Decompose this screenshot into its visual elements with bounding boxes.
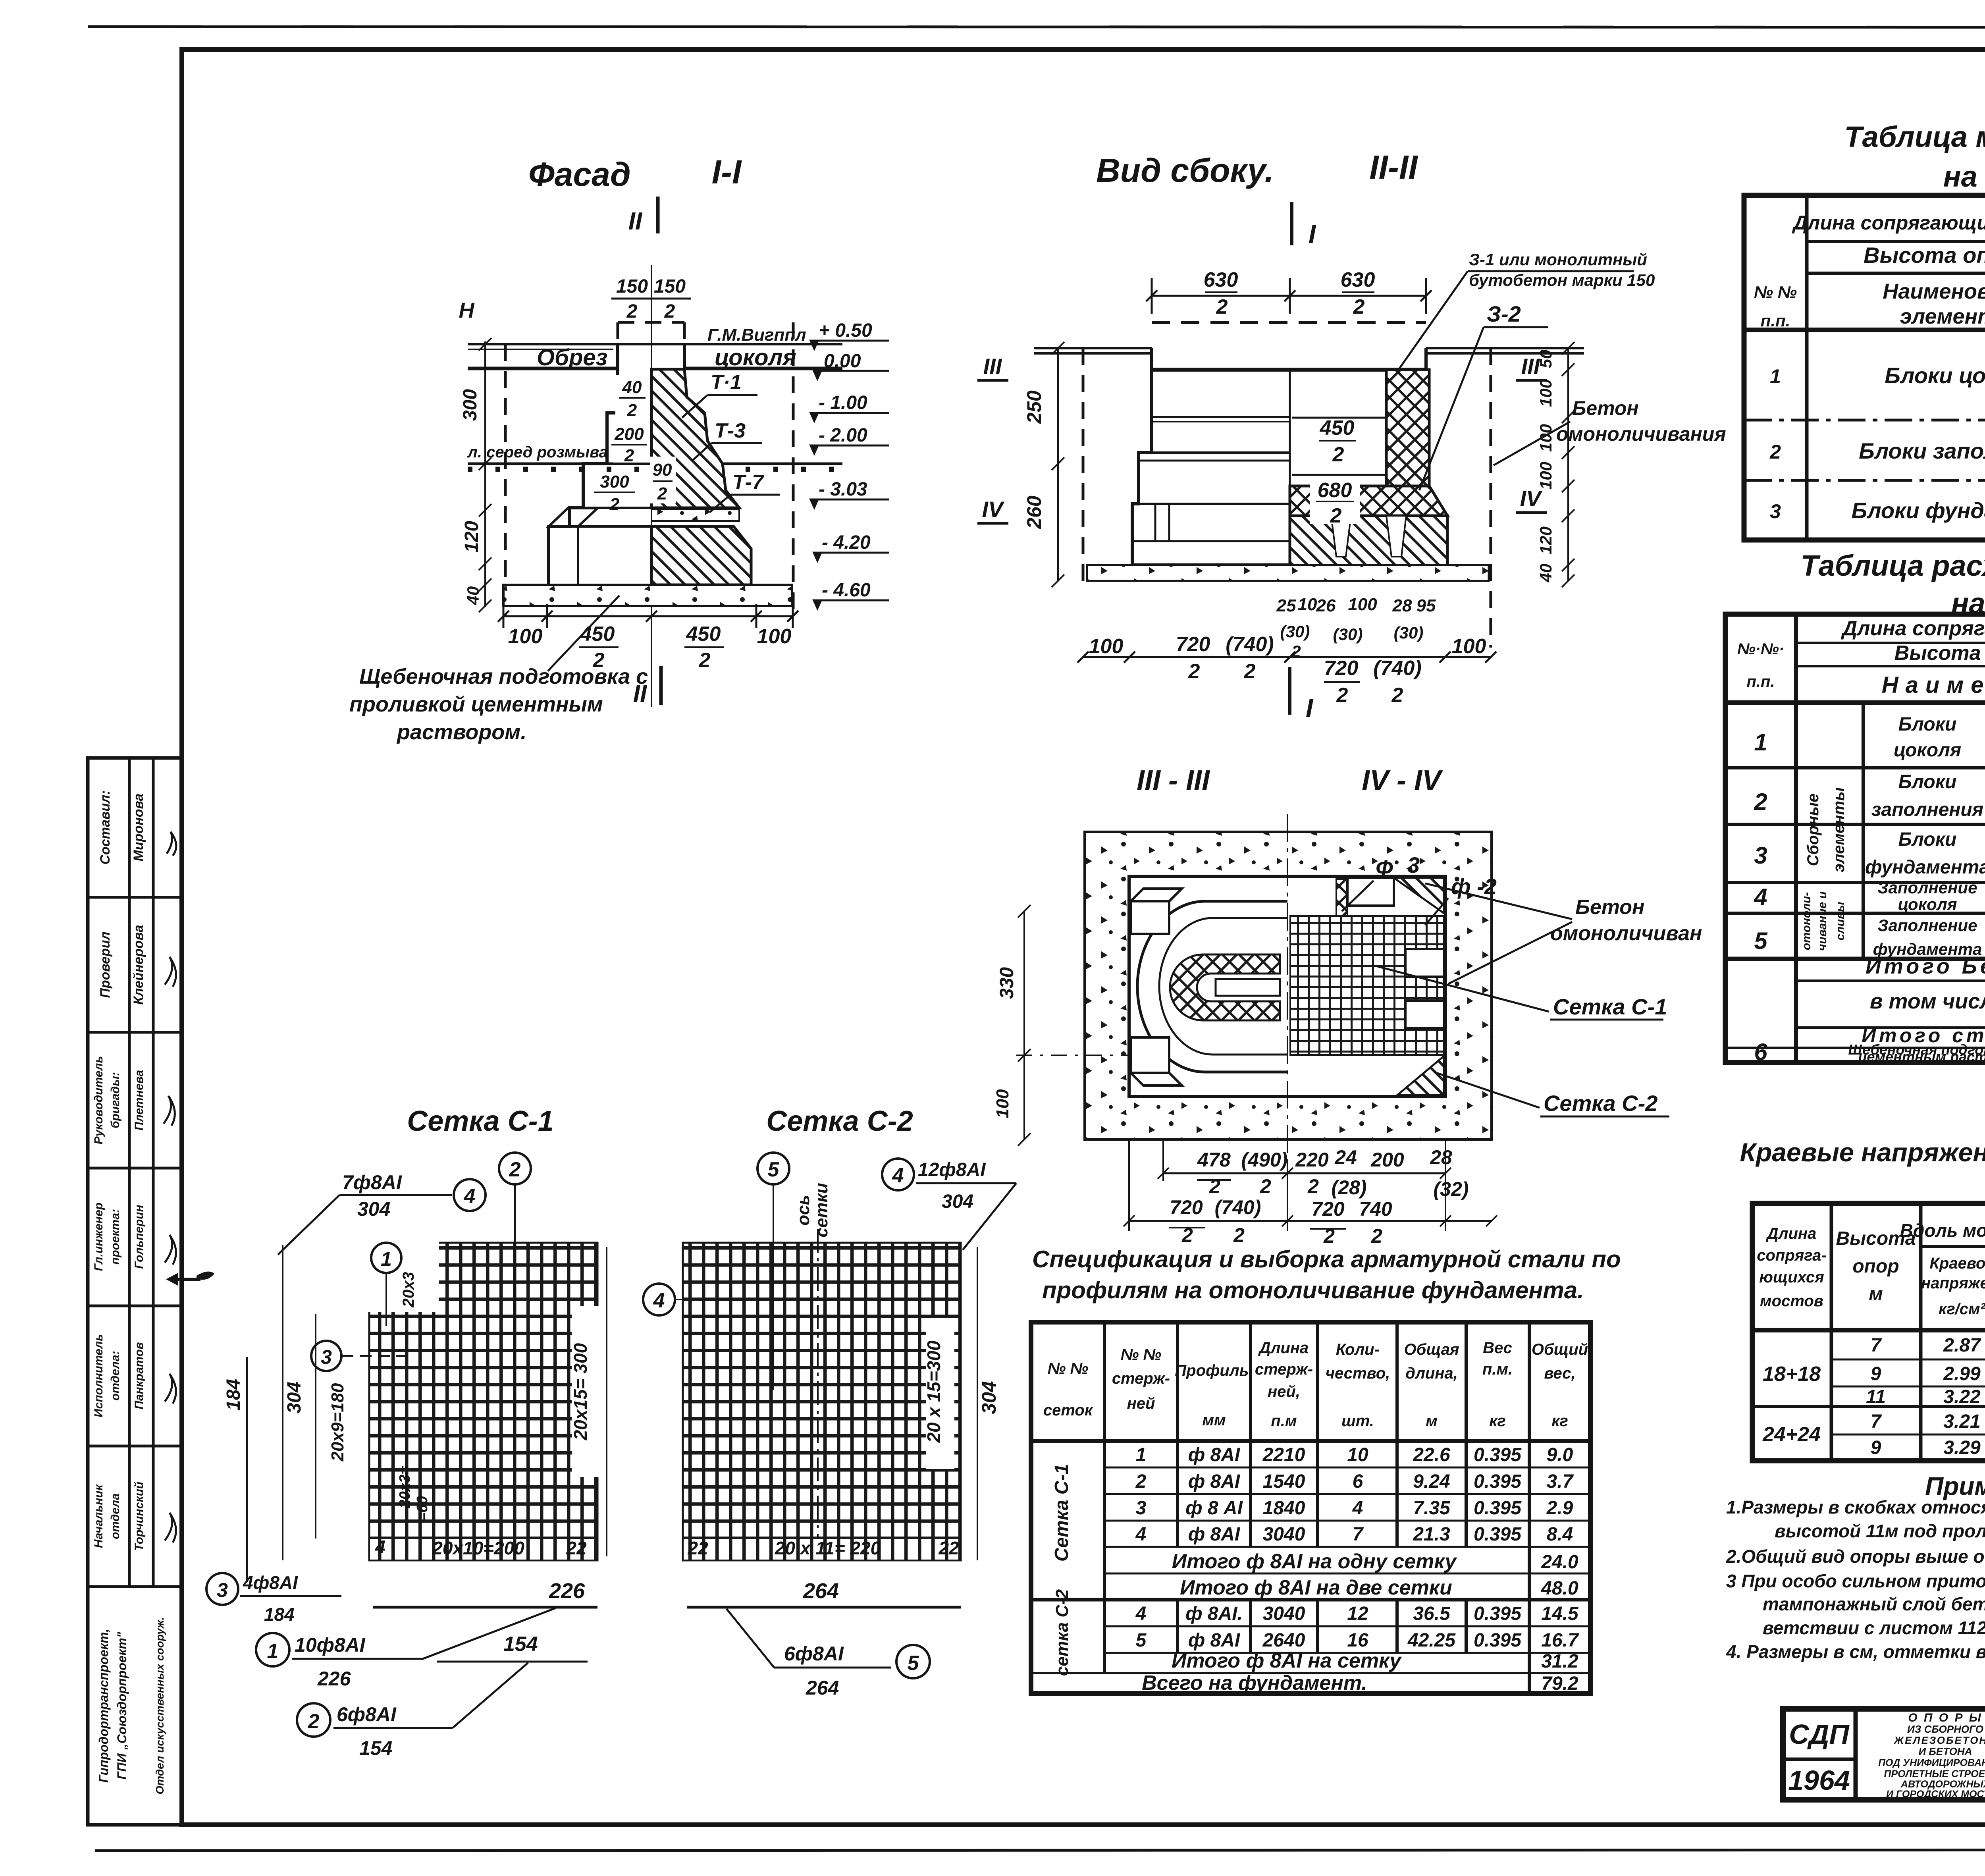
svg-text:1: 1	[381, 1248, 392, 1270]
svg-text:21.3: 21.3	[1413, 1524, 1450, 1545]
svg-text:184: 184	[223, 1379, 244, 1411]
svg-text:5: 5	[768, 1158, 780, 1181]
svg-text:№ №: № №	[1754, 283, 1797, 301]
svg-text:26: 26	[1316, 596, 1336, 615]
svg-text:И ГОРОДСКИХ МОСТОВ: И ГОРОДСКИХ МОСТОВ	[1886, 1789, 1985, 1800]
svg-text:200: 200	[1370, 1149, 1404, 1171]
svg-text:226: 226	[549, 1579, 585, 1603]
svg-text:Итого ф 8АI на одну сетку: Итого ф 8АI на одну сетку	[1172, 1550, 1458, 1573]
svg-text:1: 1	[1136, 1444, 1147, 1465]
svg-text:ф 8 АI: ф 8 АI	[1185, 1498, 1243, 1519]
svg-text:3: 3	[217, 1579, 228, 1601]
svg-text:Г.М.Вигппл: Г.М.Вигппл	[707, 325, 806, 345]
svg-text:Ф: Ф	[1376, 855, 1393, 880]
svg-text:28: 28	[1392, 596, 1412, 615]
svg-text:4: 4	[464, 1185, 476, 1208]
svg-text:7.35: 7.35	[1413, 1498, 1451, 1519]
svg-text:цементным раствором: цементным раствором	[1858, 1049, 1985, 1065]
svg-text:№·№·: №·№·	[1737, 640, 1784, 658]
svg-text:3: 3	[1754, 842, 1767, 869]
svg-text:Руководитель: Руководитель	[92, 1056, 105, 1145]
svg-text:0.395: 0.395	[1474, 1630, 1522, 1651]
svg-text:I: I	[1309, 219, 1316, 249]
svg-text:З-1 или монолитный: З-1 или монолитный	[1469, 250, 1647, 269]
svg-text:Высота опоры м: Высота опоры м	[1864, 243, 1985, 268]
svg-text:ней: ней	[1127, 1395, 1155, 1412]
svg-text:мм: мм	[1202, 1411, 1226, 1429]
svg-text:стерж-: стерж-	[1255, 1361, 1313, 1378]
svg-text:50: 50	[1536, 350, 1555, 368]
svg-text:СДП: СДП	[1789, 1719, 1850, 1750]
svg-text:Вдоль моста: Вдоль моста	[1900, 1220, 1985, 1241]
svg-text:184: 184	[264, 1604, 295, 1625]
svg-text:100: 100	[757, 625, 792, 648]
svg-text:кг: кг	[1489, 1412, 1506, 1430]
svg-text:отдела:: отдела:	[109, 1351, 122, 1401]
svg-text:6: 6	[1353, 1471, 1363, 1492]
svg-text:4: 4	[375, 1537, 385, 1557]
svg-text:(740): (740)	[1215, 1196, 1261, 1219]
svg-text:720: 720	[1311, 1198, 1345, 1220]
svg-text:ющихся: ющихся	[1759, 1269, 1824, 1286]
svg-text:4ф8АI: 4ф8АI	[243, 1572, 298, 1593]
svg-text:ПРОЛЕТНЫЕ СТРОЕНИЯ: ПРОЛЕТНЫЕ СТРОЕНИЯ	[1884, 1768, 1985, 1780]
svg-text:Блоки: Блоки	[1898, 771, 1957, 792]
svg-text:304: 304	[942, 1191, 973, 1212]
svg-text:1: 1	[1770, 365, 1781, 388]
svg-text:680: 680	[1318, 479, 1352, 502]
svg-text:шт.: шт.	[1341, 1412, 1374, 1430]
svg-text:Панкратов: Панкратов	[133, 1342, 146, 1409]
svg-text:1: 1	[1754, 729, 1767, 756]
svg-text:154: 154	[359, 1737, 392, 1759]
svg-text:раствором.: раствором.	[396, 720, 526, 744]
svg-text:10: 10	[1347, 1444, 1368, 1465]
svg-text:5: 5	[1136, 1630, 1147, 1651]
svg-text:напряжен.: напряжен.	[1921, 1274, 1985, 1292]
svg-text:вес,: вес,	[1544, 1365, 1575, 1382]
svg-text:3.21: 3.21	[1943, 1411, 1980, 1432]
svg-text:8.4: 8.4	[1547, 1524, 1573, 1545]
svg-text:150: 150	[616, 276, 648, 297]
svg-text:28: 28	[1430, 1146, 1452, 1168]
svg-text:16.7: 16.7	[1541, 1630, 1579, 1651]
svg-text:2: 2	[1307, 1175, 1319, 1197]
svg-text:150: 150	[654, 276, 686, 297]
svg-text:АВТОДОРОЖНЫХ: АВТОДОРОЖНЫХ	[1900, 1779, 1985, 1790]
svg-text:цоколя: цоколя	[1894, 740, 1961, 761]
svg-text:чивание и: чивание и	[1816, 891, 1829, 951]
svg-text:омоноличивания: омоноличивания	[1556, 423, 1726, 445]
svg-text:79.2: 79.2	[1541, 1673, 1578, 1694]
svg-text:сетки: сетки	[812, 1183, 831, 1237]
svg-text:24.0: 24.0	[1541, 1552, 1578, 1573]
svg-text:12: 12	[1347, 1603, 1368, 1624]
svg-text:3: 3	[1770, 500, 1781, 523]
svg-text:0.00: 0.00	[824, 351, 861, 372]
svg-text:9.24: 9.24	[1413, 1471, 1450, 1492]
svg-text:(30): (30)	[1394, 623, 1424, 642]
svg-text:кг: кг	[1551, 1412, 1568, 1430]
svg-text:И БЕТОНА: И БЕТОНА	[1919, 1745, 1972, 1757]
svg-text:цоколя: цоколя	[1898, 895, 1957, 914]
svg-text:чество,: чество,	[1326, 1365, 1390, 1382]
svg-text:ф 8АI: ф 8АI	[1188, 1471, 1241, 1492]
svg-text:450: 450	[580, 623, 615, 646]
svg-text:Общая: Общая	[1404, 1341, 1459, 1358]
svg-text:высотой 11м под пролеты 1: высотой 11м под пролеты 18+18 м	[1775, 1521, 1985, 1541]
svg-text:- 4.60: - 4.60	[822, 580, 871, 601]
svg-text:Вес: Вес	[1483, 1339, 1512, 1357]
svg-text:профилям на отоноличивание фун: профилям на отоноличивание фундамента.	[1042, 1277, 1584, 1303]
svg-text:Торчинский: Торчинский	[133, 1482, 146, 1551]
svg-text:Заполнение: Заполнение	[1878, 878, 1977, 897]
svg-text:20х15= 300: 20х15= 300	[570, 1343, 591, 1440]
svg-text:2: 2	[1332, 443, 1344, 466]
svg-text:Итого ф 8АI на сетку: Итого ф 8АI на сетку	[1172, 1649, 1402, 1672]
svg-text:Т-7: Т-7	[732, 471, 764, 494]
svg-text:1840: 1840	[1263, 1498, 1305, 1519]
svg-text:200: 200	[614, 424, 644, 444]
svg-text:Н: Н	[459, 299, 475, 322]
svg-text:250: 250	[1023, 390, 1045, 424]
svg-text:I: I	[1306, 693, 1314, 723]
svg-text:2640: 2640	[1262, 1630, 1305, 1651]
svg-text:(740): (740)	[1373, 657, 1421, 680]
svg-text:Исполнитель: Исполнитель	[92, 1334, 105, 1417]
svg-text:5: 5	[908, 1652, 919, 1675]
svg-text:(30): (30)	[1280, 622, 1310, 641]
svg-text:2: 2	[699, 649, 711, 672]
svg-text:2: 2	[509, 1158, 521, 1181]
svg-text:2: 2	[624, 446, 634, 465]
svg-text:2.99: 2.99	[1943, 1363, 1981, 1384]
svg-text:Составил:: Составил:	[98, 790, 113, 864]
svg-text:2: 2	[1244, 660, 1256, 683]
svg-text:2: 2	[1330, 504, 1342, 527]
svg-text:9: 9	[1871, 1437, 1881, 1458]
svg-text:элементы: элементы	[1830, 787, 1848, 872]
svg-text:1.Размеры в скобках относятся: 1.Размеры в скобках относятся к опоре вы…	[1726, 1497, 1985, 1517]
svg-text:31.2: 31.2	[1541, 1651, 1578, 1672]
svg-text:3.22: 3.22	[1943, 1386, 1981, 1407]
svg-text:40: 40	[622, 378, 642, 397]
svg-text:IV: IV	[982, 497, 1005, 522]
svg-text:100: 100	[508, 625, 543, 648]
svg-text:п.п.: п.п.	[1746, 673, 1775, 690]
svg-text:100: 100	[1536, 462, 1555, 490]
svg-text:Наименование: Наименование	[1882, 672, 1985, 698]
svg-text:100: 100	[993, 1089, 1012, 1118]
svg-text:III: III	[983, 354, 1002, 379]
svg-text:304: 304	[978, 1381, 1000, 1414]
svg-text:14.5: 14.5	[1541, 1603, 1579, 1624]
svg-text:№ №: № №	[1121, 1346, 1162, 1363]
svg-text:720: 720	[1324, 657, 1359, 680]
svg-text:2210: 2210	[1262, 1444, 1305, 1465]
svg-text:24+24: 24+24	[1762, 1423, 1821, 1446]
svg-text:Гольперин: Гольперин	[133, 1205, 146, 1269]
svg-text:630: 630	[1204, 268, 1238, 291]
svg-text:3.7: 3.7	[1547, 1471, 1574, 1492]
svg-text:+ 0.50: + 0.50	[819, 320, 872, 341]
svg-text:720: 720	[1170, 1196, 1203, 1219]
svg-text:Заполнение: Заполнение	[1878, 916, 1977, 935]
svg-text:100: 100	[1536, 379, 1555, 407]
svg-text:24: 24	[1334, 1146, 1357, 1168]
svg-text:1: 1	[267, 1640, 279, 1663]
svg-text:40: 40	[464, 586, 482, 605]
svg-text:740: 740	[1359, 1198, 1392, 1220]
svg-text:3: 3	[321, 1346, 332, 1368]
svg-text:Длина: Длина	[1766, 1225, 1817, 1242]
svg-text:- 1.00: - 1.00	[819, 392, 867, 413]
svg-text:Обрез: Обрез	[537, 345, 607, 370]
svg-text:330: 330	[996, 967, 1018, 999]
svg-text:Фасад: Фасад	[528, 156, 631, 193]
svg-text:п.м: п.м	[1271, 1412, 1297, 1430]
svg-text:Высота опоры м: Высота опоры м	[1894, 642, 1985, 665]
svg-text:Спецификация и выборка арматур: Спецификация и выборка арматурной стали …	[1032, 1246, 1621, 1273]
svg-text:20х3: 20х3	[400, 1272, 417, 1308]
svg-text:п.п.: п.п.	[1761, 311, 1790, 330]
svg-text:4: 4	[892, 1164, 904, 1187]
svg-text:3.29: 3.29	[1943, 1437, 1981, 1458]
svg-text:2: 2	[1391, 684, 1403, 707]
svg-text:22.6: 22.6	[1413, 1444, 1450, 1465]
svg-text:264: 264	[806, 1677, 839, 1699]
svg-text:(740): (740)	[1226, 633, 1274, 656]
svg-text:2.87: 2.87	[1943, 1335, 1981, 1356]
svg-text:Сетка С-2: Сетка С-2	[1544, 1091, 1657, 1116]
svg-text:Таблица расхода основных ма: Таблица расхода основных материалов	[1800, 549, 1985, 582]
svg-text:22: 22	[938, 1538, 959, 1558]
svg-text:304: 304	[357, 1198, 390, 1220]
svg-text:цоколя: цоколя	[715, 345, 796, 370]
svg-text:Плетнева: Плетнева	[133, 1070, 146, 1130]
svg-text:Длина сопрягающихся пролетов: Длина сопрягающихся пролетов	[1841, 617, 1985, 640]
svg-text:л. серед розмыва: л. серед розмыва	[467, 443, 608, 461]
svg-text:2: 2	[1371, 1225, 1382, 1247]
svg-text:100: 100	[1452, 635, 1486, 658]
svg-text:90: 90	[653, 460, 672, 480]
svg-text:6ф8АI: 6ф8АI	[784, 1643, 844, 1665]
svg-text:2: 2	[1188, 660, 1200, 683]
svg-text:Сетка С-1: Сетка С-1	[1553, 994, 1667, 1019]
svg-text:2: 2	[1754, 789, 1767, 815]
svg-text:Профиль,: Профиль,	[1175, 1362, 1253, 1379]
svg-text:154: 154	[503, 1633, 538, 1656]
svg-text:сопряга-: сопряга-	[1757, 1247, 1827, 1264]
svg-text:7: 7	[1871, 1411, 1882, 1432]
svg-text:ПОД УНИФИЦИРОВАННЫЕ: ПОД УНИФИЦИРОВАННЫЕ	[1878, 1757, 1985, 1768]
svg-text:11: 11	[1866, 1386, 1886, 1407]
svg-text:ф 8АI: ф 8АI	[1188, 1444, 1241, 1465]
svg-text:ф 8АI: ф 8АI	[1188, 1524, 1241, 1545]
svg-text:2: 2	[626, 301, 638, 322]
svg-text:120: 120	[461, 521, 482, 553]
svg-text:№ №: № №	[1048, 1360, 1089, 1377]
svg-text:Длина сопрягающихся пролётов: Длина сопрягающихся пролётов	[1792, 212, 1985, 234]
svg-text:2.9: 2.9	[1546, 1498, 1573, 1519]
svg-text:2: 2	[1260, 1175, 1271, 1197]
svg-text:IV - IV: IV - IV	[1362, 765, 1443, 796]
svg-text:Длина: Длина	[1258, 1339, 1309, 1357]
svg-text:100: 100	[1536, 424, 1555, 452]
svg-text:100: 100	[1348, 595, 1377, 614]
svg-text:18+18: 18+18	[1763, 1363, 1821, 1386]
svg-text:- 2.00: - 2.00	[819, 425, 867, 446]
svg-text:3 При особо сильном притоке во: 3 При особо сильном притоке воды вместо …	[1726, 1571, 1985, 1591]
svg-text:300: 300	[460, 389, 481, 421]
svg-text:2: 2	[1769, 441, 1781, 463]
svg-text:2: 2	[1336, 684, 1348, 707]
svg-text:Т·1: Т·1	[711, 371, 742, 394]
svg-text:бутобетон марки 150: бутобетон марки 150	[1469, 271, 1655, 289]
svg-text:4: 4	[1135, 1524, 1147, 1545]
svg-text:Отдел искусственных сооруж.: Отдел искусственных сооруж.	[154, 1617, 166, 1795]
svg-text:630: 630	[1341, 268, 1375, 291]
svg-text:6: 6	[1754, 1039, 1767, 1065]
svg-text:сетка С-2: сетка С-2	[1052, 1589, 1072, 1676]
svg-text:=60: =60	[414, 1496, 431, 1521]
svg-text:48.0: 48.0	[1541, 1578, 1578, 1599]
svg-text:4: 4	[1135, 1603, 1147, 1624]
svg-text:(490): (490)	[1241, 1149, 1288, 1171]
svg-text:264: 264	[803, 1579, 839, 1603]
svg-text:3040: 3040	[1263, 1524, 1305, 1545]
svg-text:фундамента: фундамента	[1865, 857, 1985, 878]
svg-text:2: 2	[1135, 1471, 1147, 1492]
svg-text:220: 220	[1295, 1149, 1329, 1171]
svg-text:- 3.03: - 3.03	[819, 479, 867, 500]
svg-text:бригады:: бригады:	[109, 1072, 122, 1128]
svg-text:20х10=200: 20х10=200	[432, 1538, 524, 1558]
svg-text:ф 8АI: ф 8АI	[1188, 1630, 1241, 1651]
svg-text:Бетон: Бетон	[1572, 397, 1639, 419]
svg-text:450: 450	[686, 623, 721, 646]
svg-text:ГПИ „Союздорпроект": ГПИ „Союздорпроект"	[115, 1631, 129, 1780]
svg-text:0.395: 0.395	[1474, 1524, 1522, 1545]
svg-text:II-II: II-II	[1369, 148, 1418, 186]
svg-text:4: 4	[1754, 884, 1767, 910]
svg-text:ЖЕЛЕЗОБЕТОНА: ЖЕЛЕЗОБЕТОНА	[1893, 1734, 1985, 1746]
svg-text:2.Общий вид опоры выше обреза: 2.Общий вид опоры выше обреза цокола с т…	[1726, 1546, 1985, 1567]
svg-text:Сборные: Сборные	[1804, 793, 1822, 866]
svg-text:Блоки: Блоки	[1898, 714, 1957, 735]
svg-text:Коли-: Коли-	[1336, 1341, 1380, 1358]
svg-text:сеток: сеток	[1043, 1402, 1093, 1419]
svg-text:22: 22	[687, 1538, 708, 1558]
svg-text:на один фундамент.: на один фундамент.	[1943, 160, 1985, 193]
svg-text:Сетка С-1: Сетка С-1	[1051, 1464, 1072, 1562]
svg-text:ось: ось	[794, 1195, 813, 1225]
svg-text:Таблица монтажных элементов: Таблица монтажных элементов	[1844, 120, 1985, 153]
svg-text:I-I: I-I	[712, 153, 742, 191]
svg-text:20х3=: 20х3=	[397, 1466, 413, 1509]
svg-text:ИЗ СБОРНОГО: ИЗ СБОРНОГО	[1907, 1723, 1983, 1735]
svg-text:Краевое: Краевое	[1929, 1255, 1985, 1272]
svg-text:Итого Бетона: Итого Бетона	[1866, 954, 1985, 978]
svg-text:ней,: ней,	[1268, 1383, 1300, 1400]
svg-text:м: м	[1869, 1284, 1883, 1305]
svg-text:7ф8АI: 7ф8АI	[342, 1171, 402, 1193]
svg-text:(28): (28)	[1332, 1176, 1367, 1199]
svg-text:42.25: 42.25	[1407, 1630, 1456, 1651]
svg-text:9.0: 9.0	[1547, 1444, 1573, 1465]
svg-text:2: 2	[1233, 1224, 1245, 1246]
svg-text:Проверил: Проверил	[98, 931, 113, 998]
svg-text:Вид сбоку.: Вид сбоку.	[1096, 152, 1274, 189]
svg-text:12ф8АI: 12ф8АI	[918, 1159, 986, 1180]
svg-text:З-2: З-2	[1487, 301, 1521, 326]
svg-text:отдела: отдела	[109, 1493, 122, 1539]
svg-text:450: 450	[1320, 416, 1355, 440]
svg-text:Сетка С-1: Сетка С-1	[407, 1105, 554, 1137]
svg-text:проекта:: проекта:	[109, 1209, 122, 1265]
svg-text:2: 2	[609, 495, 620, 514]
svg-text:0.395: 0.395	[1474, 1603, 1522, 1624]
svg-text:3: 3	[1136, 1498, 1147, 1519]
svg-text:40: 40	[1536, 564, 1555, 583]
svg-text:Щебеночная подготовка с: Щебеночная подготовка с	[359, 665, 648, 688]
svg-text:36.5: 36.5	[1413, 1603, 1451, 1624]
svg-text:0.395: 0.395	[1474, 1498, 1522, 1519]
svg-text:2: 2	[1353, 295, 1365, 318]
svg-text:омоноличиван: омоноличиван	[1550, 922, 1702, 945]
svg-text:720: 720	[1176, 633, 1210, 656]
svg-text:ветствии с листом 112 по ор: ветствии с листом 112 по организации раб…	[1763, 1618, 1985, 1638]
svg-text:20х9=180: 20х9=180	[328, 1383, 347, 1462]
svg-text:в том числе: в том числе	[1870, 989, 1985, 1013]
svg-text:2: 2	[1209, 1175, 1220, 1197]
svg-text:304: 304	[284, 1382, 305, 1413]
svg-text:Наименование: Наименование	[1883, 280, 1985, 303]
svg-text:(30): (30)	[1333, 625, 1363, 644]
svg-text:Всего на фундамент.: Всего на фундамент.	[1142, 1672, 1367, 1695]
svg-text:Примечания.: Примечания.	[1925, 1472, 1985, 1500]
svg-text:опор: опор	[1852, 1256, 1899, 1277]
svg-text:сливы: сливы	[1834, 902, 1847, 941]
svg-text:100: 100	[1089, 635, 1124, 658]
svg-text:Начальник: Начальник	[92, 1484, 105, 1548]
svg-text:95: 95	[1416, 596, 1436, 615]
svg-text:16: 16	[1347, 1630, 1368, 1651]
svg-text:300: 300	[600, 472, 629, 492]
svg-text:0.395: 0.395	[1474, 1444, 1522, 1465]
svg-text:Т-3: Т-3	[715, 419, 746, 442]
svg-text:- 4.20: - 4.20	[822, 532, 871, 553]
svg-text:ф 8АI.: ф 8АI.	[1185, 1603, 1243, 1624]
svg-text:проливкой цементным: проливкой цементным	[349, 692, 603, 716]
svg-text:Блоки: Блоки	[1898, 829, 1957, 850]
svg-text:Гипродортранспроект,: Гипродортранспроект,	[96, 1629, 111, 1783]
svg-text:длина,: длина,	[1405, 1365, 1458, 1382]
svg-text:20 х 11= 220: 20 х 11= 220	[775, 1538, 881, 1558]
svg-text:(32): (32)	[1434, 1178, 1469, 1200]
svg-text:260: 260	[1023, 496, 1045, 529]
svg-text:120: 120	[1536, 526, 1555, 554]
svg-text:7: 7	[1353, 1524, 1364, 1545]
svg-text:п.м.: п.м.	[1482, 1361, 1513, 1378]
svg-text:Итого ф 8АI на две сетки: Итого ф 8АI на две сетки	[1180, 1576, 1452, 1599]
svg-text:Бетон: Бетон	[1575, 896, 1644, 919]
svg-text:Блоки фундамента: Блоки фундамента	[1852, 498, 1985, 523]
svg-text:1540: 1540	[1263, 1471, 1305, 1492]
svg-text:стерж-: стерж-	[1112, 1370, 1170, 1387]
svg-text:О П О Р Ы: О П О Р Ы	[1908, 1711, 1983, 1724]
svg-text:2: 2	[627, 401, 637, 420]
